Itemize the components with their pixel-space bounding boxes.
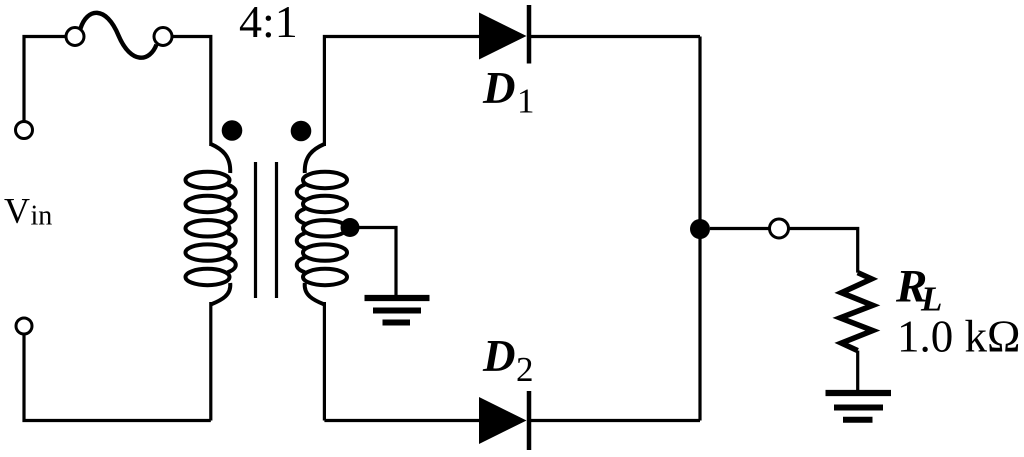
wire	[789, 229, 858, 273]
svg-text:1: 1	[517, 82, 535, 121]
wire	[856, 351, 859, 393]
svg-text:D: D	[482, 331, 516, 381]
svg-text:V: V	[4, 191, 30, 231]
terminal (input bottom)	[16, 318, 32, 334]
transformer core	[256, 162, 277, 298]
ground (load)	[826, 393, 892, 420]
wire	[209, 302, 212, 421]
wire	[531, 35, 700, 38]
diode D2	[479, 391, 529, 450]
svg-text:D: D	[482, 63, 516, 113]
transformer primary winding	[186, 144, 236, 305]
wire	[24, 334, 211, 421]
wire	[350, 228, 396, 299]
terminal (input top)	[16, 122, 33, 139]
wire	[698, 37, 701, 421]
label RL	[895, 261, 942, 319]
label D2	[482, 331, 534, 389]
svg-text:2: 2	[516, 350, 534, 389]
wire	[324, 419, 479, 422]
polarity dot secondary	[291, 121, 312, 142]
terminal (output)	[770, 219, 789, 238]
ground (center tap)	[365, 298, 430, 323]
diode D1	[479, 5, 529, 64]
wire	[323, 302, 326, 421]
center tap	[341, 218, 360, 237]
transformer secondary winding	[297, 144, 347, 305]
wire	[324, 37, 479, 147]
wire	[24, 37, 66, 122]
svg-text:1.0 kΩ: 1.0 kΩ	[897, 312, 1020, 362]
svg-text:4:1: 4:1	[239, 0, 298, 47]
wire	[710, 227, 770, 230]
label D1	[482, 63, 535, 121]
resistor RL	[840, 273, 873, 351]
wire	[531, 419, 700, 422]
fuse	[66, 13, 172, 58]
polarity dot primary	[222, 120, 243, 141]
node (output junction)	[690, 219, 710, 239]
wire	[172, 37, 211, 147]
label Vin	[4, 191, 52, 232]
svg-text:in: in	[31, 201, 53, 232]
